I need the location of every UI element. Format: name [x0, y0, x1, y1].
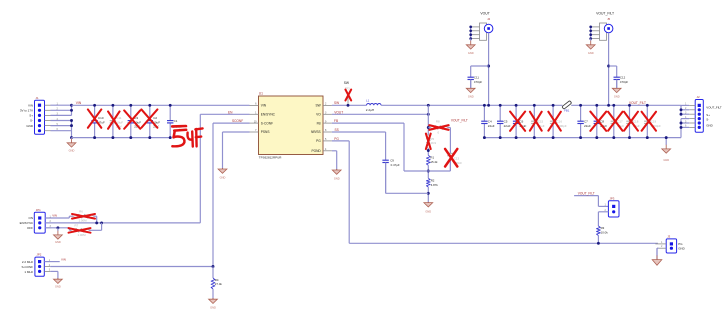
svg-text:470pF: 470pF [474, 80, 482, 84]
svg-text:S+: S+ [29, 114, 33, 118]
svg-text:VIN: VIN [52, 214, 57, 218]
svg-text:C1: C1 [174, 119, 178, 123]
svg-text:2.2 MHz: 2.2 MHz [22, 260, 34, 264]
svg-text:L1: L1 [366, 99, 370, 103]
svg-text:VOUT: VOUT [334, 111, 343, 115]
svg-text:C10: C10 [98, 116, 104, 120]
svg-text:1 MHz: 1 MHz [24, 270, 33, 274]
svg-text:GND: GND [614, 95, 620, 99]
svg-text:R8: R8 [436, 120, 440, 124]
svg-text:27.4k: 27.4k [215, 282, 223, 286]
svg-text:GND: GND [26, 124, 34, 128]
svg-text:VOUT_FILT: VOUT_FILT [629, 101, 646, 105]
svg-text:15.4k: 15.4k [430, 160, 438, 164]
svg-text:PG: PG [334, 137, 339, 141]
svg-text:R2: R2 [431, 179, 435, 183]
svg-text:JP3: JP3 [609, 196, 614, 200]
svg-text:GND: GND [210, 306, 216, 310]
svg-text:VOUT_FILT: VOUT_FILT [706, 105, 722, 109]
svg-text:EN/SYNC: EN/SYNC [20, 221, 34, 225]
svg-text:SCONF: SCONF [232, 119, 243, 123]
svg-text:C2: C2 [153, 116, 157, 120]
svg-text:22uF: 22uF [504, 124, 511, 128]
svg-text:ON: ON [29, 216, 34, 220]
svg-text:R6: R6 [79, 209, 83, 213]
svg-text:GND: GND [220, 175, 226, 179]
svg-text:GND: GND [588, 51, 594, 55]
svg-text:U1: U1 [259, 91, 263, 95]
svg-text:NR/SS: NR/SS [311, 130, 321, 134]
svg-text:J2: J2 [697, 95, 700, 99]
svg-text:VOUT: VOUT [480, 12, 489, 16]
svg-text:SW: SW [334, 101, 339, 105]
svg-text:GND: GND [663, 158, 669, 162]
svg-text:SS: SS [335, 128, 339, 132]
svg-text:SW: SW [316, 104, 321, 108]
svg-text:GND: GND [334, 177, 340, 181]
svg-text:VIN: VIN [261, 104, 267, 108]
svg-text:OFF: OFF [27, 226, 33, 230]
svg-text:GND: GND [706, 123, 712, 127]
svg-text:J3: J3 [667, 235, 670, 239]
svg-text:VIN: VIN [61, 257, 66, 261]
svg-text:FB: FB [334, 119, 338, 123]
svg-text:EN/SYNC: EN/SYNC [261, 113, 276, 117]
svg-text:S-: S- [706, 117, 709, 121]
svg-text:EN: EN [228, 110, 233, 114]
svg-text:S-CONF: S-CONF [261, 121, 273, 125]
svg-text:1.00M: 1.00M [78, 219, 87, 223]
svg-text:1.00M: 1.00M [77, 233, 86, 237]
svg-text:JP1: JP1 [36, 208, 41, 212]
svg-text:49.9: 49.9 [430, 141, 436, 145]
svg-text:R4: R4 [215, 278, 219, 282]
svg-text:VOUT_FILT: VOUT_FILT [596, 12, 614, 16]
svg-text:GND: GND [468, 95, 474, 99]
svg-text:GND: GND [678, 247, 684, 251]
svg-text:0.47µF: 0.47µF [391, 163, 400, 167]
svg-text:PSNS: PSNS [261, 130, 270, 134]
svg-text:TPS62812RPUR: TPS62812RPUR [259, 156, 283, 160]
svg-text:JP2: JP2 [36, 253, 41, 257]
svg-text:22uF: 22uF [488, 124, 495, 128]
svg-text:GND: GND [468, 51, 474, 55]
svg-text:470pF: 470pF [620, 80, 628, 84]
svg-text:S-: S- [30, 119, 33, 123]
svg-text:4.87k: 4.87k [431, 183, 439, 187]
svg-text:GND: GND [55, 284, 61, 288]
svg-text:R5: R5 [430, 137, 434, 141]
svg-text:2.2µH: 2.2µH [366, 108, 374, 112]
svg-text:VOUT_FILT: VOUT_FILT [451, 118, 468, 122]
svg-text:PGND: PGND [311, 149, 321, 153]
svg-text:FB1: FB1 [564, 109, 570, 113]
svg-text:GND: GND [425, 210, 431, 214]
svg-text:C13: C13 [454, 156, 460, 160]
svg-text:3V to 17V: 3V to 17V [20, 109, 33, 113]
svg-text:VIN: VIN [28, 103, 33, 107]
svg-text:J1: J1 [36, 96, 39, 100]
svg-text:PG: PG [678, 242, 683, 246]
svg-text:GND: GND [55, 240, 61, 244]
svg-text:VO: VO [316, 113, 321, 117]
svg-text:J4: J4 [487, 17, 490, 21]
svg-text:FB: FB [317, 121, 321, 125]
svg-text:22uF: 22uF [584, 124, 591, 128]
svg-text:SW: SW [344, 81, 350, 85]
svg-text:J5: J5 [607, 17, 610, 21]
svg-text:PG: PG [316, 139, 321, 143]
svg-text:VOUT_FILT: VOUT_FILT [578, 191, 595, 195]
svg-text:R7: R7 [75, 223, 79, 227]
svg-text:10.0k: 10.0k [601, 230, 609, 234]
svg-text:VIN: VIN [76, 101, 82, 105]
svg-text:S-CONF: S-CONF [22, 265, 34, 269]
svg-text:GND: GND [69, 148, 75, 152]
svg-text:R3: R3 [601, 226, 605, 230]
